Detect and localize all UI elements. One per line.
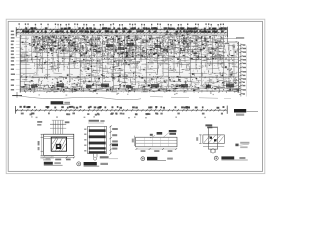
right axis dimension column bbox=[239, 44, 246, 97]
detail A left dimension line bbox=[38, 134, 43, 155]
sheet inner border frame bbox=[8, 21, 262, 171]
plan title text bbox=[51, 101, 71, 105]
left elevation marker bbox=[12, 92, 22, 98]
detail C left end marks bbox=[132, 136, 135, 146]
detail B right dimension column bbox=[109, 126, 118, 155]
floor plan door swing arcs bbox=[34, 41, 222, 83]
detail B wall section body bbox=[88, 126, 107, 153]
faint stamp text lower left bbox=[40, 157, 54, 161]
plan area light wash bbox=[20, 35, 238, 91]
detail B top annotation bbox=[88, 120, 105, 123]
top axis bubble row bbox=[19, 23, 225, 28]
detail D bottom marks bbox=[203, 147, 224, 153]
detail B bottom stub bbox=[93, 154, 118, 161]
detail B rebar bars bbox=[89, 129, 106, 153]
small gray note right of top band bbox=[236, 37, 244, 39]
lower band right title bbox=[234, 109, 258, 116]
floor plan room detail texture bbox=[20, 33, 240, 93]
detail A caption bbox=[44, 162, 63, 165]
detail C beam body bbox=[136, 137, 177, 147]
ground break wavy line bbox=[18, 96, 141, 100]
right margin note bbox=[235, 142, 249, 148]
bottom row dark room blocks bbox=[31, 84, 234, 89]
detail C bottom dimension bbox=[136, 148, 178, 152]
detail D left dimension bbox=[196, 135, 201, 144]
detail B caption with bubble bbox=[77, 162, 108, 166]
broken ground line segments right bbox=[150, 97, 231, 99]
plan bottom edge circled marks bbox=[62, 87, 78, 92]
floor plan outline walls bbox=[20, 35, 238, 93]
lower dimension band bbox=[15, 106, 227, 119]
detail D top annotation bbox=[205, 124, 218, 128]
sheet outer border frame bbox=[6, 19, 265, 173]
detail C annotation blobs bbox=[150, 130, 177, 138]
detail B left specks bbox=[84, 129, 86, 152]
detail A bottom dimension line bbox=[43, 156, 75, 160]
detail A footing outline bbox=[44, 134, 74, 155]
detail A column core hatched bbox=[51, 137, 66, 151]
top dimension band bbox=[16, 27, 227, 37]
long corridor wall lines bbox=[20, 58, 238, 78]
left axis label column bbox=[11, 31, 20, 91]
detail A dowel bars bbox=[37, 120, 69, 134]
stray dimension specks below plan bbox=[39, 93, 214, 96]
floor plan interior wall grid bbox=[21, 35, 238, 91]
detail D cross section body bbox=[203, 128, 225, 149]
detail D caption with bubble bbox=[214, 156, 248, 160]
central dark unit clusters bbox=[106, 43, 168, 52]
detail C caption with bubble bbox=[141, 157, 173, 161]
